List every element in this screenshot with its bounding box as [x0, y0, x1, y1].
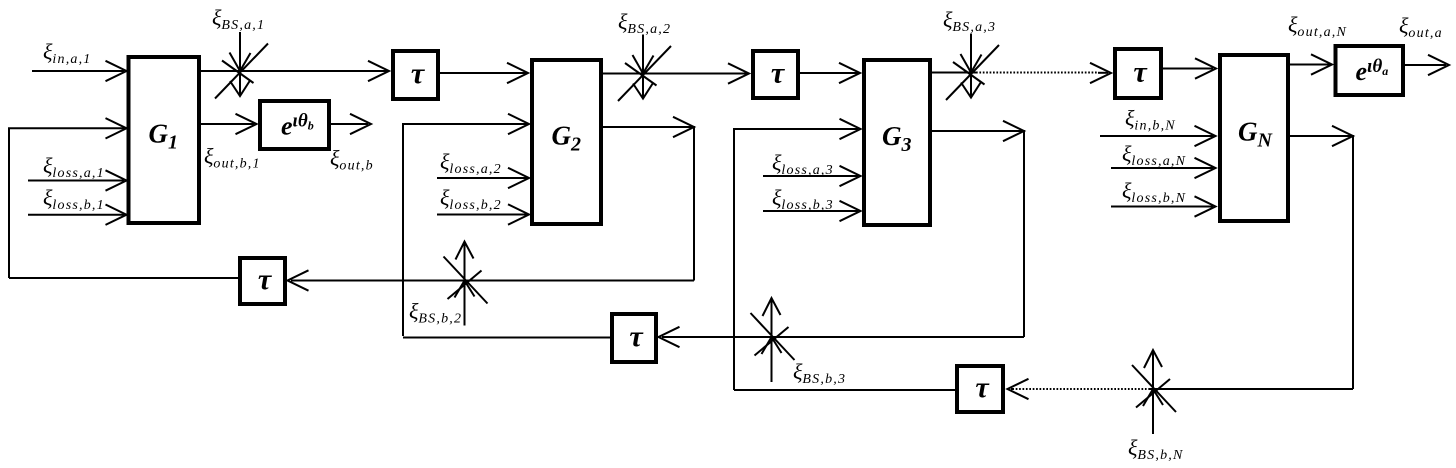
wire G3 to BS a3 [932, 72, 976, 74]
wire loss a3 into G3 [763, 166, 861, 186]
wire loss b3 into G3 [763, 201, 861, 221]
wire loss aN into GN [1111, 158, 1216, 178]
wire GN to phase a [1290, 54, 1332, 74]
wire tau A1 to G2 [440, 63, 528, 83]
gain block GN [1220, 55, 1288, 221]
gain block G1 [129, 57, 200, 223]
svg-text:τ: τ [975, 371, 990, 404]
gain block G2 [532, 60, 601, 224]
svg-text:τ: τ [771, 57, 786, 90]
delay block tau A2 [753, 51, 798, 98]
delay block tau A3 [1115, 49, 1161, 98]
wire loss bN into GN [1111, 196, 1216, 216]
wire arrow into tau F3 [1008, 379, 1029, 399]
feedback delay tau F3 [957, 366, 1003, 412]
beam splitter BS a1 [215, 32, 268, 99]
phase shifter block e^itheta_b [260, 101, 329, 149]
wire BS a3 to tau A3 dotted [976, 72, 1098, 74]
wire feedback into G2 port b [403, 114, 529, 336]
wire GN b output down [1290, 126, 1353, 389]
wire phase a output [1405, 55, 1449, 75]
delay block tau A1 [393, 51, 438, 99]
beam splitter BS a2 [618, 35, 671, 102]
wire phase b output [331, 114, 371, 134]
wire G3 b output down [932, 121, 1024, 337]
wire loss b2 into G2 [437, 204, 529, 224]
wire tau A3 to GN [1163, 58, 1216, 78]
wire loop3 dotted BS bN to tau F3 [1014, 388, 1150, 390]
wire input a1 to G1 [32, 61, 127, 81]
gain block G3 [864, 60, 930, 225]
feedback delay tau F2 [612, 314, 656, 362]
wire loop3 solid riser to BS bN [1150, 388, 1353, 390]
beam splitter BS a3 [946, 34, 999, 101]
beam splitter BS b3 [751, 298, 795, 382]
beam splitter BS b2 [444, 242, 488, 326]
wire loss b1 into G1 [28, 205, 127, 225]
wire G2 to tau A2 [603, 63, 749, 83]
wire loop1 return to tau F1 [288, 270, 695, 290]
svg-text:τ: τ [629, 320, 644, 353]
svg-text:τ: τ [1133, 56, 1148, 89]
wire feedback into G1 port b [9, 118, 127, 278]
wire tau A2 to G3 [800, 63, 860, 83]
svg-text:τ: τ [411, 57, 426, 90]
wire tau F2 to riser [403, 337, 610, 339]
wire loop2 return to tau F2 [659, 327, 1025, 347]
wire G1 to phase b [201, 114, 257, 134]
wire tau F1 to left riser [9, 277, 238, 279]
wire G2 b output down [603, 117, 694, 281]
beam splitter BS bN [1132, 350, 1176, 434]
wire loss a1 into G1 [28, 170, 127, 190]
wire feedback into G3 port b [734, 119, 861, 390]
wire input bN into GN [1100, 126, 1216, 146]
wire loss a2 into G2 [437, 168, 529, 188]
feedback delay tau F1 [240, 258, 285, 304]
svg-text:τ: τ [258, 263, 273, 296]
wire G1 to tau A1 [201, 61, 389, 81]
wire tau F3 to left riser [734, 389, 955, 391]
wire arrow into tau A3 [1090, 63, 1111, 83]
phase shifter block e^itheta_a [1336, 46, 1404, 95]
